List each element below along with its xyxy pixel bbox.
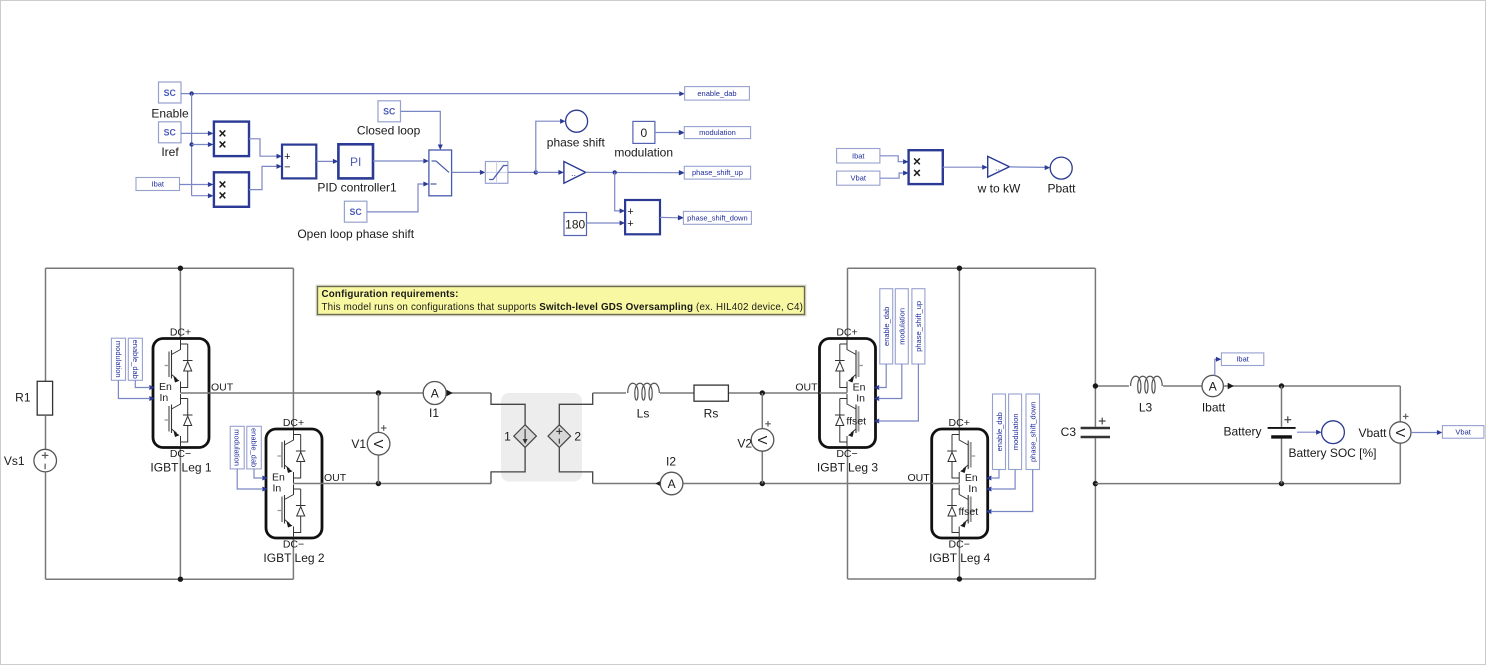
annotation Configuration requirements: [316, 285, 806, 316]
ammeter Ibatt: [1202, 375, 1234, 414]
wire Vbatt drop top: [1399, 386, 1401, 422]
from tag modulation (leg2): [230, 426, 244, 469]
switch block: [429, 150, 452, 196]
svg-text:+: +: [627, 206, 633, 218]
svg-text:This model runs on configurati: This model runs on configurations that s…: [322, 302, 804, 313]
wire left vertical above R1: [45, 268, 47, 381]
wire multiplier1 out to sum plus: [249, 139, 282, 159]
wire Enable branch down: [191, 94, 193, 196]
from tag modulation (leg4): [1009, 394, 1022, 470]
goto tag modulation: [679, 127, 750, 139]
battery Battery: [1223, 416, 1295, 438]
svg-text:phase shift: phase shift: [547, 136, 606, 150]
wire Iref to multiplier1 in1: [181, 131, 213, 136]
wire primary top into transformer: [491, 393, 525, 425]
svg-text:enable_dab: enable_dab: [882, 307, 891, 346]
wire phase_shift_down to leg4 Offset: [991, 470, 1033, 512]
junction after saturation: [534, 170, 538, 174]
multiplier block U1 (Iref x Enable): [214, 122, 249, 157]
svg-text:DC+: DC+: [836, 327, 857, 339]
svg-text:I2: I2: [666, 455, 676, 469]
IGBT Leg 3: [820, 339, 876, 448]
svg-text:DC+: DC+: [170, 327, 191, 339]
svg-text:A: A: [1209, 380, 1217, 394]
svg-text:phase_shift_up: phase_shift_up: [692, 168, 743, 177]
svg-text:DC−: DC−: [283, 539, 304, 551]
junction V2 top: [760, 390, 765, 395]
wire battery branch vertical bottom: [1281, 439, 1283, 484]
from tag Vbat (power calc): [837, 171, 880, 185]
svg-text:SC: SC: [164, 88, 177, 98]
wire junction down to sum2 in1: [615, 172, 625, 213]
IGBT Leg 1 pin labels: [149, 327, 233, 475]
resistor Rs: [694, 385, 728, 420]
input SC block Iref: [159, 122, 182, 159]
svg-text:In: In: [968, 483, 977, 495]
from tag enable_dab (leg3): [880, 289, 893, 364]
wire phase_shift_up to leg3 Offset: [879, 364, 919, 421]
wire R1 to Vs1: [45, 415, 47, 450]
voltmeter V1: [351, 425, 390, 455]
IGBT Leg 2 pin labels: [262, 417, 346, 565]
probe circle Pbatt: [1047, 157, 1076, 195]
svg-text:A: A: [431, 387, 439, 401]
svg-text:×: ×: [913, 166, 921, 181]
wire leg2 DC+ drop: [292, 268, 294, 429]
IGBT Leg 2: [266, 429, 322, 538]
svg-text:I1: I1: [429, 406, 439, 420]
from tag enable_dab (leg2): [247, 426, 261, 469]
wire leg1 DC- drop: [179, 448, 181, 580]
svg-text:modulation: modulation: [699, 128, 736, 137]
sum block 2 (180 + phase): [625, 200, 660, 234]
wire junction to gain: [536, 170, 564, 175]
svg-text:Ls: Ls: [637, 407, 650, 421]
PI block PID controller1: [317, 144, 397, 194]
wire Ibatt to Ibat tag (signal): [1215, 357, 1222, 376]
svg-text:SC: SC: [383, 107, 396, 117]
wire Vs1 to DC- rail: [45, 472, 47, 579]
gain block w to kW: [977, 156, 1021, 195]
junction Enable branch to multiplier1: [189, 142, 193, 146]
svg-text:modulation: modulation: [614, 146, 673, 160]
wire modulation to leg3 In: [879, 364, 902, 399]
junction leg1 bottom: [178, 577, 183, 582]
wire leg2 OUT rail: [322, 483, 491, 485]
junction V2 bottom: [760, 481, 765, 486]
wire C3 vertical bottom: [1094, 438, 1096, 579]
voltmeter Vbatt: [1358, 414, 1411, 444]
svg-text:V1: V1: [351, 437, 366, 451]
svg-text:..: ..: [571, 168, 576, 178]
junction leg1 top: [178, 266, 183, 271]
multiplier block U3 (Ibat x Vbat): [909, 150, 943, 184]
svg-text:..: ..: [995, 163, 1000, 173]
wire modulation to leg4 In: [991, 470, 1015, 490]
wire sum2 to phase_shift_down tag: [660, 215, 683, 220]
wire leg4 DC+ drop: [958, 268, 960, 429]
wire Vbat to multiplier3 in2: [880, 171, 909, 179]
svg-text:+: +: [627, 218, 633, 230]
gain block (deg): [564, 162, 586, 184]
wire multiplier2 out to sum minus: [249, 164, 282, 190]
svg-text:modulation: modulation: [114, 341, 123, 378]
svg-text:enable_dab: enable_dab: [697, 89, 736, 98]
wire switch to saturation: [452, 170, 486, 175]
wire 180 to sum2 in2: [587, 221, 626, 226]
svg-text:SC: SC: [349, 207, 362, 217]
svg-text:Ibat: Ibat: [151, 180, 164, 189]
wire 0 to modulation tag: [655, 130, 684, 135]
svg-text:V2: V2: [737, 437, 752, 451]
goto tag enable_dab: [679, 87, 749, 101]
wire Enable to enable_dab goto: [181, 93, 681, 95]
goto tag Vbat (measurement): [1442, 426, 1484, 439]
resistor R1: [15, 381, 52, 415]
svg-text:OUT: OUT: [795, 382, 818, 394]
saturation block: [485, 162, 508, 184]
wire battery to SOC probe: [1297, 430, 1322, 435]
wire gain out to phase_shift_up tag: [586, 170, 685, 175]
svg-text:Enable: Enable: [151, 107, 189, 121]
svg-text:1: 1: [504, 430, 511, 444]
junction after gain: [613, 170, 617, 174]
wire secondary bottom rail: [593, 483, 932, 485]
wire V1 drop bottom: [377, 455, 379, 484]
svg-text:Ibat: Ibat: [1236, 355, 1249, 364]
wire leg3 DC- drop: [847, 448, 849, 580]
wire battery top rail: [1095, 385, 1400, 387]
wire secondary top rail: [593, 392, 820, 394]
junction leg4 bottom: [957, 576, 962, 581]
svg-text:V: V: [371, 440, 386, 449]
IGBT Leg 4 pin labels: [908, 417, 992, 565]
IGBT Leg 3 pin labels: [795, 327, 879, 475]
wire V2 drop bottom: [761, 451, 763, 484]
ammeter I1: [423, 382, 453, 421]
svg-text:DC−: DC−: [949, 539, 970, 551]
input SC block Open loop phase shift: [297, 201, 414, 241]
constant block 180: [564, 213, 587, 236]
wire modulation to leg1 In: [118, 380, 150, 398]
svg-text:enable_dab: enable_dab: [995, 412, 1004, 451]
svg-text:In: In: [273, 483, 282, 495]
from tag Ibat (power calc): [837, 149, 880, 164]
wire leg4 DC- drop: [958, 538, 960, 579]
wire Ibat to multiplier2 in1: [180, 182, 214, 187]
svg-text:OUT: OUT: [211, 382, 234, 394]
wire enable_dab to leg3 En: [879, 364, 887, 388]
wire Closed loop to switch top: [401, 111, 443, 150]
voltage source Vs1: [4, 449, 57, 472]
wire Ibat to multiplier3 in1: [880, 156, 909, 164]
wire Enable to multiplier2 in2: [192, 193, 214, 198]
transformer winding 1 (diamond): [504, 425, 536, 448]
svg-text:OUT: OUT: [908, 472, 931, 484]
svg-text:In: In: [856, 393, 865, 405]
from tag Ibat (control): [136, 178, 180, 191]
capacitor C3: [1061, 418, 1110, 439]
wire battery branch vertical top: [1281, 386, 1283, 427]
junction V1 top: [376, 390, 381, 395]
wire gain to Pbatt probe: [1009, 165, 1050, 170]
constant block 0: [614, 121, 673, 159]
wire DC+ rail left bridge: [46, 267, 294, 269]
from tag phase_shift_up (leg3): [912, 289, 925, 364]
svg-text:DC−: DC−: [170, 448, 191, 460]
svg-text:C3: C3: [1061, 425, 1077, 439]
svg-text:In: In: [160, 392, 169, 404]
wire battery bottom rail: [1095, 483, 1400, 485]
wire enable_dab to leg2 En: [254, 469, 263, 478]
wire enable_dab to leg1 En: [135, 380, 150, 387]
svg-text:×: ×: [219, 137, 227, 152]
wire junction up to phase shift probe: [536, 119, 566, 173]
svg-text:Configuration requirements:: Configuration requirements:: [322, 289, 459, 300]
wire sum to PI: [316, 159, 338, 164]
wire secondary bottom from transformer: [559, 447, 592, 484]
wire primary bottom from transformer: [491, 447, 525, 484]
junction battery rail left top: [1093, 383, 1098, 388]
junction battery branch top: [1279, 383, 1284, 388]
svg-text:Pbatt: Pbatt: [1047, 181, 1076, 195]
wire DC+ rail right bridge: [848, 267, 1096, 269]
wire secondary top from transformer: [559, 393, 592, 425]
svg-text:180: 180: [565, 218, 585, 232]
wire enable_dab to leg4 En: [991, 470, 999, 479]
svg-text:DC+: DC+: [283, 417, 304, 429]
goto tag Ibat (measurement): [1221, 353, 1263, 366]
svg-text:Ibatt: Ibatt: [1202, 401, 1226, 415]
goto tag phase_shift_down: [678, 211, 751, 224]
IGBT Leg 4: [932, 429, 988, 538]
svg-text:ffset: ffset: [959, 506, 979, 518]
svg-text:A: A: [668, 477, 676, 491]
svg-text:2: 2: [574, 430, 581, 444]
svg-text:Open loop phase shift: Open loop phase shift: [297, 227, 414, 241]
wire leg3 DC+ drop: [847, 268, 849, 338]
svg-text:modulation: modulation: [1011, 413, 1020, 450]
probe circle Battery SOC: [1288, 421, 1376, 460]
multiplier block U2 (Ibat x Enable): [214, 172, 249, 207]
svg-text:Ibat: Ibat: [852, 151, 865, 160]
probe circle phase shift: [547, 110, 606, 149]
svg-text:phase_shift_down: phase_shift_down: [1029, 402, 1038, 462]
svg-text:L3: L3: [1139, 401, 1153, 415]
wire Vbatt drop bottom: [1399, 443, 1401, 484]
voltmeter V2: [737, 421, 773, 451]
junction battery rail left bottom: [1093, 481, 1098, 486]
inductor Ls: [626, 383, 660, 420]
svg-text:Vbat: Vbat: [1455, 427, 1471, 436]
svg-text:Battery SOC [%]: Battery SOC [%]: [1288, 446, 1376, 460]
svg-text:DC+: DC+: [949, 417, 970, 429]
svg-text:×: ×: [219, 188, 227, 203]
svg-text:0: 0: [641, 126, 648, 140]
svg-text:Vs1: Vs1: [4, 454, 25, 468]
svg-text:PI: PI: [350, 155, 361, 169]
svg-text:enable_dab: enable_dab: [131, 340, 140, 379]
wire leg1 OUT rail: [209, 392, 491, 394]
wire V1 drop top: [377, 393, 379, 432]
svg-text:phase_shift_down: phase_shift_down: [687, 213, 747, 222]
transformer winding 2 (diamond): [548, 425, 581, 448]
wire Vbatt to Vbat tag (signal): [1411, 430, 1442, 435]
from tag modulation (leg3): [895, 289, 908, 364]
input SC block Enable: [151, 82, 189, 121]
wire modulation to leg2 In: [237, 469, 263, 489]
wire DC- rail left bridge: [46, 578, 294, 580]
svg-text:−: −: [284, 162, 290, 174]
svg-text:DC−: DC−: [836, 448, 857, 460]
svg-text:Vbatt: Vbatt: [1358, 426, 1387, 440]
junction on Enable wire: [189, 91, 193, 95]
svg-text:IGBT Leg 2: IGBT Leg 2: [263, 551, 324, 565]
svg-text:IGBT Leg 3: IGBT Leg 3: [817, 461, 878, 475]
svg-text:SC: SC: [164, 128, 177, 138]
sum block (error): [282, 145, 316, 179]
wire saturation out to junction: [508, 171, 536, 173]
svg-text:enable_dab: enable_dab: [249, 428, 258, 467]
svg-text:PID controller1: PID controller1: [317, 181, 397, 195]
wire leg2 DC- drop: [292, 538, 294, 579]
wire DC- rail right bridge: [848, 578, 1096, 580]
svg-text:modulation: modulation: [898, 308, 907, 345]
wire C3 vertical top: [1094, 268, 1096, 427]
ammeter I2: [655, 455, 682, 495]
from tag enable_dab (leg1): [128, 338, 142, 380]
svg-text:OUT: OUT: [324, 472, 347, 484]
wire Open loop to switch in2: [367, 182, 429, 212]
svg-text:Iref: Iref: [161, 145, 179, 159]
svg-text:Battery: Battery: [1223, 425, 1261, 439]
svg-text:R1: R1: [15, 391, 31, 405]
goto tag phase_shift_up: [679, 166, 750, 179]
wire V2 drop top: [761, 393, 763, 429]
svg-text:w to kW: w to kW: [977, 181, 1021, 195]
wire PI out to switch in1: [373, 159, 429, 164]
input SC block Closed loop: [357, 101, 421, 138]
svg-text:modulation: modulation: [233, 429, 242, 466]
wire leg1 DC+ drop: [179, 268, 181, 338]
svg-text:ffset: ffset: [846, 416, 866, 428]
junction battery branch bottom: [1279, 481, 1284, 486]
IGBT Leg 1: [153, 339, 209, 448]
svg-text:Rs: Rs: [704, 407, 719, 421]
wire multiplier3 to gain w to kW: [943, 165, 988, 170]
svg-text:phase_shift_up: phase_shift_up: [914, 301, 923, 352]
inductor L3: [1129, 376, 1163, 414]
junction V1 bottom: [376, 481, 381, 486]
svg-text:V: V: [755, 436, 770, 445]
svg-text:Vbat: Vbat: [851, 174, 867, 183]
junction leg4 top: [957, 266, 962, 271]
transformer background: [501, 393, 582, 482]
from tag modulation (leg1): [111, 338, 125, 380]
svg-text:V: V: [1393, 428, 1408, 437]
svg-text:IGBT Leg 4: IGBT Leg 4: [929, 551, 990, 565]
svg-text:Closed loop: Closed loop: [357, 124, 421, 138]
from tag phase_shift_down (leg4): [1026, 394, 1040, 470]
from tag enable_dab (leg4): [993, 394, 1006, 470]
wire Enable to multiplier1 in2: [192, 142, 214, 147]
svg-text:IGBT Leg 1: IGBT Leg 1: [150, 461, 211, 475]
